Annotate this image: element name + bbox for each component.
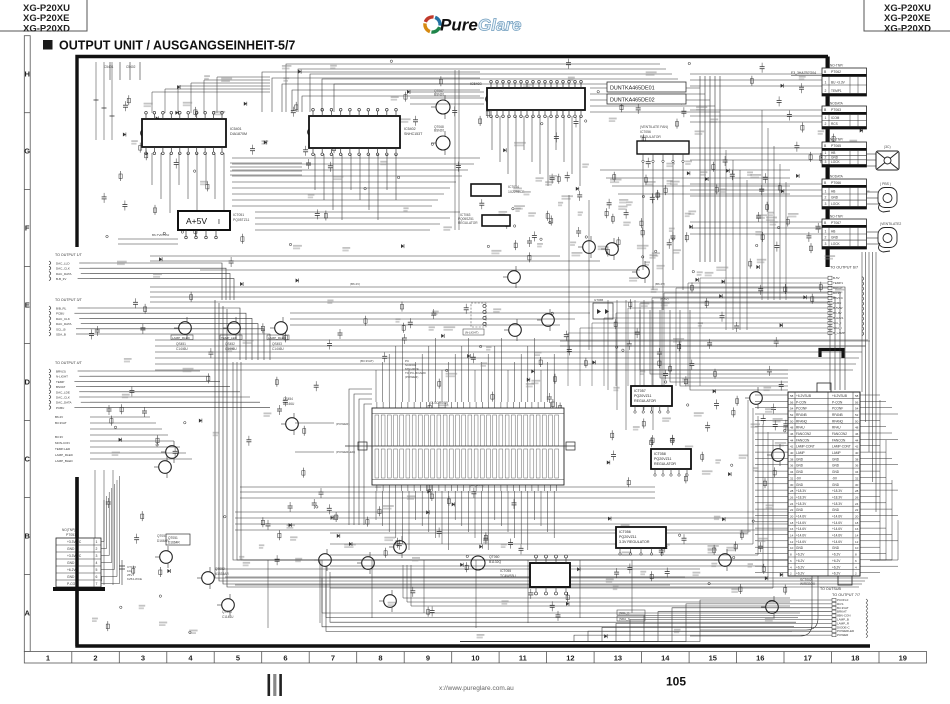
svg-text:2: 2 [825,122,827,126]
svg-text:52: 52 [790,413,794,417]
svg-text:PQ20VZ11: PQ20VZ11 [634,394,652,398]
svg-text:NODATA: NODATA [830,175,844,179]
svg-text:1: 1 [96,540,98,544]
svg-text:LOCK: LOCK [831,202,841,206]
svg-text:RFAU: RFAU [796,426,805,430]
svg-text:50: 50 [855,419,859,423]
svg-text:(B6.2V): (B6.2V) [655,282,665,286]
svg-text:B_LAMP: B_LAMP [833,331,845,335]
svg-text:MON-CON: MON-CON [55,441,70,445]
svg-text:IC7054: IC7054 [508,185,519,189]
svg-text:PT063: PT063 [831,108,841,112]
svg-text:30: 30 [790,483,794,487]
svg-text:QT060: QT060 [489,555,499,559]
svg-text:(POWERLED): (POWERLED) [336,450,355,454]
svg-text:-9V: -9V [832,476,838,480]
svg-text:10: 10 [471,654,479,663]
svg-text:PCONF: PCONF [796,407,807,411]
svg-text:BRV(3): BRV(3) [56,370,66,374]
svg-text:BU +3.3V: BU +3.3V [831,81,846,85]
svg-text:2: 2 [93,654,97,663]
svg-text:E3_3HA7B7G04: E3_3HA7B7G04 [791,71,816,75]
svg-text:2: 2 [96,547,98,551]
svg-text:RFANQ: RFANQ [832,419,844,423]
svg-text:GND: GND [832,508,840,512]
svg-text:BSVAT: BSVAT [56,385,66,389]
svg-text:SDA_I: SDA_I [833,326,842,330]
svg-text:LAMP_RLED: LAMP_RLED [268,336,287,340]
svg-text:12: 12 [566,654,574,663]
svg-text:ICT058: ICT058 [654,452,666,456]
svg-text:GND: GND [796,457,804,461]
svg-text:48: 48 [855,426,859,430]
svg-text:54: 54 [855,407,859,411]
svg-text:(VENTILATE FAN): (VENTILATE FAN) [640,125,668,129]
svg-text:B: B [24,532,30,541]
svg-text:DUNTKA465DE01: DUNTKA465DE01 [610,86,655,92]
svg-text:RFANB: RFANB [796,413,807,417]
svg-text:28: 28 [855,489,859,493]
svg-text:PT062: PT062 [831,70,841,74]
svg-text:A1146U: A1146U [283,402,295,406]
svg-text:NO(TNP)/: NO(TNP)/ [62,528,76,532]
svg-text:C5402: C5402 [126,65,136,69]
svg-text:24: 24 [790,502,794,506]
svg-text:C5401: C5401 [104,65,114,69]
svg-text:PT066: PT066 [831,181,841,185]
svg-text:SNHC153T: SNHC153T [404,132,423,136]
svg-text:GND: GND [832,464,840,468]
svg-text:ICT056: ICT056 [619,530,631,534]
svg-text:14: 14 [661,654,670,663]
svg-text:3: 3 [825,242,827,246]
svg-text:TEMP1: TEMP1 [831,89,842,93]
svg-text:FANCON: FANCON [796,438,810,442]
svg-text:A: A [24,609,30,618]
svg-text:C1446U: C1446U [225,347,237,351]
svg-text:(3C): (3C) [884,145,891,149]
svg-text:ICT057: ICT057 [634,389,646,393]
svg-text:+14.6V: +14.6V [832,540,843,544]
svg-text:46: 46 [790,432,794,436]
svg-text:PQ05TZ11: PQ05TZ11 [233,218,249,222]
svg-text:1X2296CE: 1X2296CE [508,190,525,194]
svg-text:12: 12 [790,540,794,544]
svg-text:QT051: QT051 [168,536,178,540]
svg-text:TEMP: TEMP [56,380,64,384]
svg-text:PT067: PT067 [831,221,841,225]
svg-text:58: 58 [790,394,794,398]
svg-text:3: 3 [825,202,827,206]
svg-text:RCS: RCS [831,122,838,126]
svg-text:56: 56 [855,400,859,404]
svg-text:36: 36 [855,464,859,468]
svg-text:10: 10 [790,546,794,550]
svg-text:+14.6V: +14.6V [796,540,807,544]
svg-text:+3.3V PC: +3.3V PC [67,540,82,544]
svg-text:LAMP_RLED: LAMP_RLED [172,336,191,340]
svg-text:+6.2V: +6.2V [832,565,841,569]
svg-text:42: 42 [790,445,794,449]
svg-text:C: C [24,455,30,464]
svg-text:38: 38 [855,457,859,461]
svg-text:WIREBOX: WIREBOX [800,582,816,586]
svg-text:(N-LIGHT): (N-LIGHT) [465,331,479,335]
svg-text:DUNTKA465DE02: DUNTKA465DE02 [610,98,655,104]
svg-text:NO-TNP/: NO-TNP/ [830,138,843,142]
svg-text:XG-P20XD: XG-P20XD [23,23,70,34]
svg-text:24: 24 [855,502,859,506]
svg-text:LAMP-CONT: LAMP-CONT [832,445,851,449]
svg-text:+6.2V: +6.2V [796,572,805,576]
svg-text:22: 22 [790,508,794,512]
svg-text:DAC_DATA: DAC_DATA [56,322,72,326]
svg-text:B1132Q: B1132Q [489,560,502,564]
svg-text:58: 58 [855,394,859,398]
svg-text:GND: GND [67,575,75,579]
svg-text:Glare: Glare [478,16,521,35]
svg-text:18: 18 [855,521,859,525]
svg-text:+18.3V: +18.3V [832,489,843,493]
svg-text:FANCON2: FANCON2 [796,432,811,436]
svg-text:+6.2V: +6.2V [796,553,805,557]
svg-text:GND: GND [832,457,840,461]
svg-text:+6.2V: +6.2V [832,559,841,563]
svg-text:18: 18 [851,654,859,663]
svg-text:+14.6V: +14.6V [832,527,843,531]
svg-text:PQ20VZ11: PQ20VZ11 [619,535,637,539]
svg-text:LOCK: LOCK [831,242,841,246]
svg-text:2: 2 [825,89,827,93]
svg-text:GND: GND [832,546,840,550]
svg-text:P-CON: P-CON [832,400,843,404]
svg-text:TEMP1: TEMP1 [833,281,843,285]
svg-text:E: E [25,301,30,310]
svg-text:DAC_CLK: DAC_CLK [56,267,70,271]
svg-text:1: 1 [825,151,827,155]
svg-text:(SDA_I): (SDA_I) [619,617,630,621]
svg-text:SCL_B: SCL_B [56,327,66,331]
svg-text:3.3V REGULATOR: 3.3V REGULATOR [619,540,650,544]
svg-text:REGULATOR: REGULATOR [640,135,661,139]
svg-text:PCBU: PCBU [56,312,64,316]
svg-text:DAC_LLD: DAC_LLD [56,262,70,266]
svg-text:LAMP: LAMP [796,451,805,455]
svg-text:GND: GND [67,561,75,565]
svg-text:HB: HB [831,151,835,155]
svg-text:34: 34 [790,470,794,474]
svg-text:28: 28 [790,489,794,493]
svg-text:DAC_CLK: DAC_CLK [56,396,70,400]
svg-text:POWER: POWER [837,633,849,637]
svg-text:(VENTILATE2: (VENTILATE2 [880,222,901,226]
svg-text:10: 10 [855,546,859,550]
svg-text:TO OUTPUT 7/7: TO OUTPUT 7/7 [832,593,860,597]
svg-text:QS452: QS452 [225,342,235,346]
svg-text:44: 44 [790,438,794,442]
svg-text:1: 1 [825,116,827,120]
svg-text:NO-TNP/: NO-TNP/ [830,64,843,68]
svg-text:DAC_LDE: DAC_LDE [56,390,70,394]
svg-text:(B6.2V): (B6.2V) [350,282,360,286]
svg-text:19: 19 [899,654,907,663]
svg-text:OUTPUT UNIT / AUSGANGSEINHEIT-: OUTPUT UNIT / AUSGANGSEINHEIT-5/7 [59,39,295,53]
svg-text:+6.2VSUB: +6.2VSUB [832,394,847,398]
svg-text:x://www.pureglare.com.au: x://www.pureglare.com.au [439,685,514,692]
svg-text:26: 26 [790,496,794,500]
svg-text:B3.3VAT: B3.3VAT [55,421,67,425]
svg-text:GND: GND [831,196,839,200]
svg-text:16: 16 [756,654,764,663]
svg-text:(POWER): (POWER) [336,422,349,426]
svg-text:B-5V: B-5V [833,276,840,280]
svg-text:B-B_3V: B-B_3V [56,277,66,281]
svg-text:+14.6V: +14.6V [832,534,843,538]
svg-text:XG-P20XD: XG-P20XD [884,23,931,34]
svg-text:(B3.3VAT): (B3.3VAT) [360,359,374,363]
svg-text:1: 1 [46,654,50,663]
svg-text:LAMP_BLED: LAMP_BLED [55,459,74,463]
svg-text:ICT051: ICT051 [233,213,244,217]
svg-text:11: 11 [519,654,527,663]
svg-text:LAMP-CONT: LAMP-CONT [796,445,815,449]
svg-text:K254-WCE: K254-WCE [127,577,142,581]
svg-text:DAC_DATA: DAC_DATA [56,401,72,405]
svg-text:9: 9 [426,654,430,663]
svg-text:40: 40 [855,451,859,455]
svg-text:+14.6V: +14.6V [832,521,843,525]
svg-text:PCBU: PCBU [56,406,64,410]
svg-text:+6.2V: +6.2V [796,559,805,563]
svg-text:7: 7 [331,654,335,663]
svg-text:44: 44 [855,438,859,442]
svg-text:5: 5 [236,654,240,663]
svg-text:BSN20: BSN20 [434,93,444,97]
svg-text:+18.3V: +18.3V [832,502,843,506]
svg-text:TO OUTPUT 6/7: TO OUTPUT 6/7 [830,266,858,270]
svg-text:BRKAT: BRKAT [833,286,843,290]
svg-text:+18.3V: +18.3V [832,496,843,500]
svg-text:I: I [218,219,220,226]
svg-text:H: H [24,70,29,79]
svg-text:1: 1 [825,81,827,85]
svg-text:ICT055: ICT055 [500,569,511,573]
svg-text:20: 20 [790,515,794,519]
svg-text:38: 38 [790,457,794,461]
svg-text:B/B_RL: B/B_RL [56,307,67,311]
svg-text:A1533AR: A1533AR [215,572,229,576]
svg-text:(SCL_I): (SCL_I) [619,611,629,615]
svg-text:NODATA: NODATA [830,102,844,106]
svg-text:3: 3 [141,654,145,663]
svg-text:GND: GND [831,236,839,240]
svg-text:+6.2V: +6.2V [796,565,805,569]
svg-text:GND: GND [796,464,804,468]
svg-text:HB: HB [831,230,835,234]
svg-text:RFAU: RFAU [832,426,841,430]
svg-text:BSN20: BSN20 [434,129,444,133]
svg-text:G: G [24,147,30,156]
svg-text:14: 14 [855,534,859,538]
svg-text:LOCK: LOCK [831,160,841,164]
svg-text:GND: GND [67,547,75,551]
svg-text:105: 105 [666,675,686,689]
svg-text:+14.6V: +14.6V [796,527,807,531]
svg-text:3: 3 [96,554,98,558]
svg-text:B-H2V1: B-H2V1 [833,316,844,320]
svg-text:QS454: QS454 [283,397,293,401]
svg-text:TO OUTPUT 4/T: TO OUTPUT 4/T [55,361,83,365]
svg-text:QT053: QT053 [222,610,232,614]
svg-text:QS453: QS453 [272,342,282,346]
svg-text:TO OUTSUB: TO OUTSUB [820,587,842,591]
svg-text:26: 26 [855,496,859,500]
svg-text:GT06B: GT06B [594,298,603,302]
svg-text:7: 7 [96,582,98,586]
svg-text:1: 1 [825,230,827,234]
svg-text:HB: HB [831,190,835,194]
svg-text:(B-5V): (B-5V) [660,297,669,301]
svg-text:FANCON: FANCON [832,438,846,442]
svg-text:(POWER): (POWER) [405,375,418,379]
svg-text:3: 3 [825,160,827,164]
svg-text:+3.3V PC: +3.3V PC [67,554,82,558]
svg-text:+18.3V: +18.3V [796,489,807,493]
svg-text:16: 16 [790,527,794,531]
svg-text:+6.2V: +6.2V [832,553,841,557]
svg-text:C1146U: C1146U [222,615,234,619]
svg-text:2: 2 [825,236,827,240]
svg-text:REGULATOR: REGULATOR [634,399,656,403]
svg-text:54: 54 [790,407,794,411]
svg-text:15: 15 [709,654,717,663]
svg-text:SDA_B: SDA_B [56,333,66,337]
svg-text:PT051: PT051 [66,533,76,537]
svg-text:IC7056: IC7056 [640,130,651,134]
svg-text:+6.2V: +6.2V [67,568,77,572]
svg-text:50: 50 [790,419,794,423]
svg-text:IC5401: IC5401 [230,127,242,131]
svg-text:32: 32 [790,476,794,480]
svg-text:TEMP-LED: TEMP-LED [55,447,71,451]
svg-text:+14.6V: +14.6V [796,521,807,525]
svg-text:+18.3V: +18.3V [796,502,807,506]
svg-text:B6-TVRT05J: B6-TVRT05J [152,233,170,237]
svg-text:TO OUTPUT 3/T: TO OUTPUT 3/T [55,298,83,302]
svg-text:6: 6 [283,654,287,663]
svg-text:+14.6V: +14.6V [796,534,807,538]
svg-text:PT065: PT065 [831,144,841,148]
svg-text:12: 12 [855,540,859,544]
svg-text:1: 1 [825,190,827,194]
svg-text:TO OUTPUT 1/T: TO OUTPUT 1/T [55,253,83,257]
svg-text:B6.2V: B6.2V [55,415,63,419]
svg-text:56: 56 [790,400,794,404]
svg-text:+6.2V: +6.2V [832,572,841,576]
svg-text:2: 2 [825,155,827,159]
svg-text:5: 5 [96,568,98,572]
svg-text:PCONF: PCONF [832,407,843,411]
svg-text:(3-SCR002): (3-SCR002) [430,401,448,405]
svg-text:TEMP_LED: TEMP_LED [221,336,238,340]
svg-text:GND: GND [796,546,804,550]
svg-text:+14.6V: +14.6V [832,515,843,519]
svg-text:D1664R: D1664R [168,541,180,545]
svg-text:ICOM: ICOM [831,116,840,120]
svg-text:DAC_DATA: DAC_DATA [56,272,72,276]
svg-text:REGULATOR: REGULATOR [458,221,478,225]
svg-text:SCL_I: SCL_I [833,321,842,325]
svg-text:2: 2 [825,196,827,200]
svg-text:DAC_CLK: DAC_CLK [56,317,70,321]
svg-text:13: 13 [614,654,622,663]
svg-text:+14.6V: +14.6V [796,515,807,519]
svg-text:40: 40 [790,451,794,455]
svg-text:34: 34 [855,470,859,474]
svg-text:B5VCC: B5VCC [833,296,844,300]
svg-text:N-LIGHT: N-LIGHT [56,375,68,379]
svg-text:TC4W53U: TC4W53U [500,574,516,578]
svg-text:PCBU: PCBU [833,301,841,305]
svg-text:B-5VW: B-5VW [833,306,843,310]
svg-text:18: 18 [790,521,794,525]
svg-text:14: 14 [790,534,794,538]
svg-text:B3.3V: B3.3V [55,435,63,439]
svg-text:LAMP_RLED: LAMP_RLED [55,453,74,457]
svg-text:D: D [24,378,30,387]
svg-text:LAMP: LAMP [832,451,841,455]
svg-text:42: 42 [855,445,859,449]
svg-text:GND: GND [796,470,804,474]
svg-text:PQ20VZ11: PQ20VZ11 [654,457,672,461]
svg-text:GND: GND [831,155,839,159]
svg-text:C1446U: C1446U [176,347,188,351]
svg-text:P-CON: P-CON [796,400,807,404]
svg-text:IC5403: IC5403 [470,82,482,86]
svg-text:+6.2VSUB: +6.2VSUB [796,394,811,398]
svg-text:GND: GND [796,508,804,512]
svg-text:RFANQ: RFANQ [796,419,808,423]
svg-text:REGULATOR: REGULATOR [654,462,676,466]
svg-text:30: 30 [855,483,859,487]
svg-text:32: 32 [855,476,859,480]
svg-text:16: 16 [855,527,859,531]
svg-text:GND: GND [796,483,804,487]
svg-text:GND: GND [832,470,840,474]
svg-text:RFANB: RFANB [832,413,843,417]
svg-text:( PBS ): ( PBS ) [880,182,891,186]
svg-text:-9V: -9V [796,476,802,480]
svg-text:36: 36 [790,464,794,468]
svg-text:QT052: QT052 [215,567,225,571]
svg-text:FANCON2: FANCON2 [832,432,847,436]
svg-text:22: 22 [855,508,859,512]
svg-text:Pure: Pure [440,16,478,35]
svg-text:QS451: QS451 [176,342,186,346]
svg-text:20: 20 [855,515,859,519]
svg-text:8: 8 [378,654,382,663]
svg-text:46: 46 [855,432,859,436]
svg-text:48: 48 [790,426,794,430]
svg-text:B3.3V: B3.3V [833,291,841,295]
svg-text:QT051: QT051 [157,534,167,538]
svg-text:IC5402: IC5402 [404,127,416,131]
svg-text:17: 17 [804,654,812,663]
svg-text:BK-8V: BK-8V [833,311,842,315]
svg-text:GND: GND [832,483,840,487]
svg-text:NO-TNP/: NO-TNP/ [830,215,843,219]
svg-text:A+5V: A+5V [186,216,207,226]
